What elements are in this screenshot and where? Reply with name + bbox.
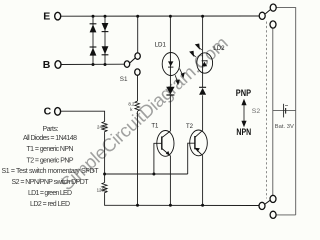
switch S1 common xyxy=(124,61,129,67)
wire diode column left xyxy=(92,16,94,64)
LD2 emission arrows xyxy=(190,44,202,57)
svg-text:Bat. 3V: Bat. 3V xyxy=(275,124,294,130)
node E row / S1 xyxy=(136,15,139,18)
wire T1 emitter to bus xyxy=(169,156,171,206)
wire S2 bottom contact to right rail xyxy=(276,214,296,216)
switch S2 top common xyxy=(259,12,265,19)
wire base rail xyxy=(105,173,188,175)
wire series diode to T2 collector xyxy=(202,95,204,130)
wire LD2 to series diode xyxy=(202,73,204,87)
wire C row xyxy=(61,111,105,121)
svg-text:Parts:: Parts: xyxy=(43,126,59,133)
svg-text:S1: S1 xyxy=(120,76,128,83)
switch S1 upper throw xyxy=(135,53,140,59)
node base rail left xyxy=(103,173,106,176)
wire S1 lower contact down to R2 and bottom bus xyxy=(137,75,139,101)
S2 selector double arrow xyxy=(242,100,246,126)
resistor 120R zigzag xyxy=(102,183,107,195)
switch S2 top upper throw xyxy=(270,4,276,11)
resistor R2 zigzag xyxy=(135,101,140,113)
wire E row xyxy=(61,15,259,17)
switch S1 lower throw xyxy=(135,69,140,75)
wire battery rung xyxy=(273,110,296,112)
watermark SimpleCircuitDiagram.Com xyxy=(56,32,232,194)
node bus / T1 emitter xyxy=(169,204,172,207)
LD1 emission arrows xyxy=(175,69,184,85)
wire diode column right xyxy=(104,16,106,64)
resistor 240R zigzag xyxy=(102,122,107,134)
wire series diode to T1 collector xyxy=(169,95,171,131)
diode D4 (right column lower, pointing down) xyxy=(102,46,109,55)
transistor T1 (NPN) xyxy=(157,131,174,157)
wire LD1 branch upper xyxy=(169,16,171,53)
LED LD1 xyxy=(162,53,179,76)
svg-text:C: C xyxy=(44,106,52,118)
svg-text:T2 = generic PNP: T2 = generic PNP xyxy=(27,158,74,165)
parts list xyxy=(2,126,100,208)
diode D1 (left column upper, pointing up) xyxy=(90,24,97,33)
wire inner rail S2 xyxy=(272,28,274,196)
svg-text:All Diodes = 1N4148: All Diodes = 1N4148 xyxy=(23,135,77,142)
node E row / LD2 xyxy=(201,15,204,18)
switch S2 bottom upper throw xyxy=(270,195,276,202)
transistor T2 (PNP) xyxy=(190,130,208,156)
wire C chain mid xyxy=(104,134,106,183)
node E row / LD1 xyxy=(169,15,172,18)
S2 mechanical link dashed xyxy=(266,22,268,199)
svg-text:LD1: LD1 xyxy=(155,42,167,49)
svg-text:PNP: PNP xyxy=(236,88,251,98)
node bus / T2 emitter xyxy=(201,204,204,207)
svg-text:B: B xyxy=(43,59,51,71)
diode D5 under LD1 (pointing down) xyxy=(166,87,174,95)
switch S2 top lower throw xyxy=(270,21,276,28)
node B row / diode col left xyxy=(92,63,95,66)
svg-text:S2: S2 xyxy=(252,108,261,115)
node base rail T1 xyxy=(152,173,155,176)
switch S2 bottom common xyxy=(259,202,265,209)
LED LD2 xyxy=(197,53,213,73)
svg-text:T1 = generic NPN: T1 = generic NPN xyxy=(27,146,74,153)
switch S2 bottom lever xyxy=(265,200,270,204)
battery cell bars xyxy=(284,104,288,118)
svg-text:LD2 = red LED: LD2 = red LED xyxy=(30,201,70,208)
wire B row xyxy=(61,63,124,65)
svg-text:E: E xyxy=(43,11,50,23)
wire T1 base jog xyxy=(154,143,162,174)
node B row / diode col right xyxy=(104,63,107,66)
svg-text:S2 = NPN/PNP switch DPDT: S2 = NPN/PNP switch DPDT xyxy=(12,179,90,186)
wire S1 upper contact to E row xyxy=(137,16,139,53)
diode D2 (left column lower, pointing up) xyxy=(90,47,97,56)
switch S2 top lever xyxy=(265,10,270,14)
diode D3 (right column upper, pointing down) xyxy=(102,23,109,32)
node E row / diode col left xyxy=(92,15,95,18)
switch S1 lever xyxy=(129,58,135,64)
svg-text:T2: T2 xyxy=(186,124,194,130)
wire LD1 to series diode xyxy=(169,75,171,87)
wire C chain lower to bus corner xyxy=(105,195,259,206)
switch S2 bottom lower throw xyxy=(270,211,276,218)
svg-text:NPN: NPN xyxy=(236,127,251,137)
wire S2 top contact to right rail xyxy=(276,8,295,215)
svg-text:LD2: LD2 xyxy=(213,45,225,52)
wire T2 base jog xyxy=(188,143,195,174)
wire LD2 branch upper xyxy=(202,16,204,53)
diode D6 under LD2 (pointing up) xyxy=(199,87,206,95)
wire T2 emitter to bus xyxy=(202,156,204,206)
node E row / diode col right xyxy=(104,15,107,18)
svg-text:LD1 = green LED: LD1 = green LED xyxy=(28,190,72,197)
svg-text:120R: 120R xyxy=(97,187,108,192)
svg-text:S1 = Test switch momentary SPD: S1 = Test switch momentary SPDT xyxy=(2,168,100,175)
svg-text:240R: 240R xyxy=(97,124,108,129)
svg-text:T1: T1 xyxy=(151,124,159,130)
node bus / R2 xyxy=(136,204,139,207)
